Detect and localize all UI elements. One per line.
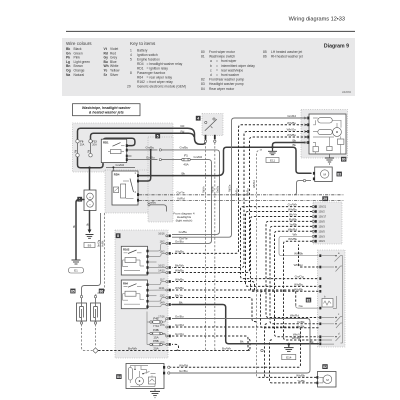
svg-text:Wh/Rd: Wh/Rd	[288, 227, 298, 231]
wire Gn/Rd fusebox row 327 to rear wiper	[170, 327, 300, 367]
svg-text:Front/rear washer pump: Front/rear washer pump	[209, 78, 244, 82]
wire dashdot Gy/Ye from RD4	[139, 194, 344, 196]
svg-text:& heated washer jets: & heated washer jets	[89, 110, 124, 114]
RH heated washer jet 86	[91, 303, 101, 321]
wire Wh/Rd GEM row6	[275, 231, 319, 336]
svg-text:H32084: H32084	[342, 90, 352, 94]
motor 80 pin arrows	[304, 117, 307, 144]
svg-text:Bn/Wh: Bn/Wh	[128, 346, 137, 350]
connector circles under ignition switch	[204, 140, 206, 142]
svg-text:Wash/wipe, headlight washer: Wash/wipe, headlight washer	[82, 106, 131, 110]
wire Gn/Bu stub to diagram 4	[148, 204, 150, 206]
svg-text:Wh/Bu: Wh/Bu	[175, 268, 184, 272]
fuse F42	[150, 321, 152, 323]
headlight washer pump 83 box	[315, 167, 333, 182]
relay R64 coil	[125, 291, 136, 296]
connector below RH jet	[94, 322, 96, 324]
item label 82	[322, 364, 327, 369]
motor 80 small rect right	[338, 139, 344, 144]
svg-text:Gn/Rd: Gn/Rd	[194, 155, 203, 159]
switch upper pin stub wires	[299, 245, 319, 268]
svg-text:20A: 20A	[80, 144, 85, 147]
svg-text:RD4: RD4	[137, 62, 144, 66]
wire Wh/Bu GEM row2	[246, 212, 319, 287]
svg-text:Bk: Bk	[240, 340, 244, 344]
svg-text:Gn/Bu: Gn/Bu	[148, 201, 157, 205]
wire Gn/Og fusebox row 336	[172, 336, 251, 351]
svg-text:E11: E11	[270, 159, 275, 163]
relay R64 contact	[128, 284, 137, 288]
item label 4	[196, 116, 201, 121]
wire Bk thick riser to pump 83	[256, 150, 262, 378]
svg-text:Bk: Bk	[310, 340, 314, 344]
wire Bk/Ye GEM row3	[251, 217, 319, 292]
svg-text:R64: R64	[123, 281, 128, 285]
wire drop ignition left dashed	[206, 143, 208, 351]
pump 83 lower wire	[303, 179, 305, 181]
relay RD1 terminals	[126, 144, 128, 147]
key column 1	[127, 49, 186, 89]
svg-text:Front wiper motor: Front wiper motor	[209, 50, 236, 54]
svg-text:= ignition relay: = ignition relay	[147, 67, 169, 71]
relay R64 terminals	[146, 283, 148, 286]
junction E14	[288, 343, 291, 346]
wire riser to RD4 terminal	[138, 150, 151, 181]
svg-text:20A: 20A	[92, 144, 97, 147]
svg-text:R162: R162	[137, 80, 145, 84]
ignition switch 4 internals	[205, 121, 207, 123]
svg-text:Bk: Bk	[182, 171, 186, 175]
svg-text:Generic electronic module (GEM: Generic electronic module (GEM)	[137, 85, 186, 89]
svg-text:11/7: 11/7	[160, 279, 165, 282]
svg-text:LH heated washer jet: LH heated washer jet	[271, 50, 302, 54]
fuse F13	[89, 140, 92, 143]
svg-text:83: 83	[337, 172, 341, 176]
svg-text:17/6: 17/6	[160, 324, 165, 327]
wire RH jet down to junction	[95, 324, 97, 347]
svg-text:100/3: 100/3	[319, 235, 326, 238]
wire labels at fusebox pins	[175, 230, 188, 336]
wire Gn/Bu F1 Gn/Rd row	[128, 159, 158, 161]
svg-text:(light switch): (light switch)	[176, 219, 193, 223]
switch 81 contact c	[321, 308, 342, 328]
svg-text:R162: R162	[123, 248, 130, 252]
svg-text:Wh/Bk: Wh/Bk	[288, 237, 297, 241]
motor 80 motor circle	[333, 128, 342, 137]
svg-text:82: 82	[323, 365, 327, 369]
svg-text:Gn/Bu: Gn/Bu	[180, 146, 189, 150]
engine fusebox 5 shaded area	[73, 123, 174, 172]
wire to LH jet	[82, 213, 101, 295]
wire Wh/Gn to motor pin 3	[172, 132, 307, 268]
svg-text:14/10: 14/10	[158, 270, 165, 273]
svg-text:Gn/Bu: Gn/Bu	[146, 155, 155, 159]
svg-text:Wh/Bu: Wh/Bu	[246, 188, 249, 196]
svg-text:16/2: 16/2	[160, 250, 165, 253]
motor 80 small rect mid	[327, 147, 332, 151]
wire Wh/Bu fusebox row 290 to switch Na riser	[172, 290, 296, 306]
svg-text:Ye/Bk: Ye/Bk	[289, 222, 297, 226]
svg-text:Wh/Bk: Wh/Bk	[292, 336, 301, 340]
svg-text:8: 8	[130, 71, 132, 75]
rear motor 84 park switch box	[149, 377, 156, 384]
svg-text:86: 86	[100, 289, 104, 293]
svg-text:Bn/Og: Bn/Og	[97, 239, 100, 247]
wire Wh/Bu fusebox row 281.5 down to switch	[172, 282, 257, 292]
motor 80 terminals	[307, 117, 309, 120]
svg-text:Rd: Rd	[181, 124, 185, 128]
wire Rd bus2 from fuse F13	[91, 133, 195, 139]
connector below LH jet	[80, 322, 82, 324]
fusebox pin labels	[158, 232, 165, 344]
svg-text:F36: F36	[153, 328, 159, 332]
svg-text:Gn/Wh: Gn/Wh	[288, 203, 298, 207]
svg-text:Gn/Bu: Gn/Bu	[175, 314, 184, 318]
wire Wh/Bk GEM row8	[284, 241, 319, 340]
LH heated washer jet 85	[77, 303, 87, 321]
ground under motor 80	[329, 154, 331, 158]
wire Wh/Bu to motor pin 2	[172, 125, 307, 254]
pump 82 terminals	[316, 376, 318, 379]
svg-text:Wh/Bu: Wh/Bu	[235, 188, 238, 196]
passenger fusebox 8 shaded area	[115, 230, 168, 358]
switch 81 internals	[321, 256, 342, 272]
connector circle on pump feed	[261, 349, 263, 351]
wire Ye/Bk to pump 82	[270, 340, 317, 383]
svg-text:Wh/Rd: Wh/Rd	[179, 363, 189, 367]
svg-text:5: 5	[157, 134, 159, 138]
passenger fusebox strip	[148, 137, 173, 222]
key panel background	[62, 38, 355, 96]
front wiper motor 80 box	[309, 114, 346, 154]
svg-text:Vt/Rd: Vt/Rd	[177, 196, 185, 200]
wire Wh GEM row7	[279, 236, 319, 255]
junction E11 on Bk wire	[271, 146, 273, 148]
key column 2	[201, 50, 255, 91]
svg-text:Bk/Wh: Bk/Wh	[175, 263, 184, 267]
connector on LH jet	[80, 295, 82, 297]
svg-text:Na: Na	[299, 304, 303, 308]
svg-text:RD1: RD1	[103, 141, 109, 145]
svg-text:Rd: Rd	[181, 129, 185, 133]
ground E14	[284, 347, 294, 349]
fusebox internal feed line	[147, 312, 150, 345]
motor 80 armature capsule 1	[318, 118, 333, 123]
wire colour table	[66, 47, 120, 77]
ignition switch 4 shaded area	[202, 114, 223, 136]
motor 80 small rect left	[313, 147, 318, 152]
GEM connector 29 pins	[312, 205, 327, 243]
svg-text:16/2: 16/2	[160, 240, 165, 243]
wire Bk/Ye fusebox row 300	[172, 298, 257, 324]
svg-text:29: 29	[127, 85, 131, 89]
fuse F9	[76, 140, 79, 143]
wash/wipe switch 81 shaded area	[318, 250, 346, 347]
svg-text:Gn/Rd: Gn/Rd	[287, 114, 296, 118]
svg-text:8: 8	[117, 234, 119, 238]
relay RD4 terminals	[137, 174, 139, 177]
svg-text:front wiper: front wiper	[221, 59, 237, 63]
junction RD1 to RD4 riser	[150, 149, 152, 151]
svg-text:Ye/Bk: Ye/Bk	[101, 240, 104, 247]
relay R64 pin wires	[149, 282, 166, 285]
svg-text:Bk: Bk	[292, 143, 296, 147]
svg-text:Diagram 9: Diagram 9	[324, 44, 349, 50]
svg-text:16/16: 16/16	[158, 232, 165, 235]
rear motor 84 resistor	[128, 368, 132, 381]
svg-text:Wh/Bu: Wh/Bu	[294, 282, 303, 286]
svg-text:29: 29	[323, 197, 327, 201]
svg-text:RD1: RD1	[137, 67, 144, 71]
junction diamond	[93, 348, 98, 353]
svg-text:86: 86	[263, 55, 267, 59]
svg-text:100/5: 100/5	[319, 220, 326, 223]
relay R162 terminals	[146, 250, 148, 253]
ground E11	[272, 147, 274, 151]
key column 3	[263, 50, 303, 59]
svg-text:5: 5	[130, 58, 132, 62]
relay R162 pin wires	[149, 243, 166, 251]
relay R64 box	[121, 280, 147, 309]
relay RD4 coil	[121, 184, 126, 198]
svg-text:Wiring diagrams 12•33: Wiring diagrams 12•33	[289, 17, 345, 23]
svg-text:Engine fusebox: Engine fusebox	[137, 58, 160, 62]
switch 81 intermittent block b	[322, 299, 333, 308]
svg-text:R64: R64	[137, 76, 143, 80]
svg-text:F56: F56	[153, 339, 159, 343]
svg-text:4: 4	[130, 53, 132, 57]
svg-text:100/4: 100/4	[319, 240, 326, 243]
svg-text:Wh/Bk: Wh/Bk	[296, 373, 305, 377]
wire Rd bus1 from fuse F9 to ignition switch	[78, 128, 206, 144]
svg-text:11/11: 11/11	[159, 287, 165, 290]
relay RD1 box	[101, 139, 126, 162]
fusebox connector column	[166, 235, 171, 346]
wire Rd/Bk GEM row4	[266, 221, 319, 317]
fuse F1 40A inline	[182, 158, 185, 161]
item label 86	[99, 289, 104, 294]
svg-text:80: 80	[201, 50, 205, 54]
svg-text:84: 84	[117, 375, 121, 379]
relay RD4 diode box	[114, 187, 119, 193]
engine fusebox 5 lower lobe	[105, 170, 150, 213]
svg-text:80: 80	[342, 158, 346, 162]
svg-text:Key to items: Key to items	[130, 41, 156, 46]
wire battery positive rail	[78, 157, 104, 168]
fuse F56	[150, 343, 152, 345]
svg-text:Bk/Ye: Bk/Ye	[289, 213, 297, 217]
item label 8	[116, 233, 121, 238]
svg-text:40A: 40A	[183, 162, 188, 166]
svg-text:RH heated washer jet: RH heated washer jet	[271, 55, 303, 59]
svg-text:Gn/Bu: Gn/Bu	[179, 230, 188, 234]
wire Wh/Bk to pump 82	[259, 324, 316, 378]
svg-text:81: 81	[307, 298, 311, 302]
diagram title box	[73, 104, 141, 116]
svg-text:b: b	[210, 64, 212, 68]
svg-text:E14: E14	[286, 356, 292, 360]
svg-text:13/2: 13/2	[160, 295, 165, 298]
wire dashdot Vt/Rd from RD4	[139, 199, 344, 201]
svg-text:Gn/Rd: Gn/Rd	[116, 163, 125, 167]
item label 5	[155, 134, 160, 139]
motor 80 armature capsule 2	[318, 129, 333, 134]
pump 83 terminals	[313, 172, 315, 175]
svg-text:Wh/Rd: Wh/Rd	[290, 314, 300, 318]
rear motor 84 terminals	[163, 366, 165, 369]
svg-text:= headlight washer relay: = headlight washer relay	[147, 62, 183, 66]
washer pump 82 box	[318, 372, 337, 388]
header rule	[66, 30, 355, 32]
switch 81 contact d	[321, 256, 342, 345]
svg-text:14/9: 14/9	[160, 302, 165, 305]
wire battery top lead	[89, 168, 91, 190]
ground E1	[72, 259, 81, 261]
junction battery rail	[88, 167, 90, 169]
wire battery negative to ground	[89, 211, 91, 230]
svg-text:Gn/Og: Gn/Og	[175, 332, 184, 336]
wire drop ignition right dashed	[215, 143, 217, 351]
relay RD1 contact	[113, 143, 121, 147]
wire RD1 pin stub	[128, 155, 132, 157]
relay R162 coil	[125, 258, 136, 263]
svg-text:Rear wiper motor: Rear wiper motor	[209, 87, 235, 91]
relay RD1 coil	[111, 150, 122, 154]
svg-text:1: 1	[130, 49, 132, 53]
item label 84	[116, 374, 121, 379]
wire Ye/Bk GEM row5	[270, 226, 319, 323]
ground under rear motor 84	[154, 389, 156, 392]
svg-text:Gy/Ye: Gy/Ye	[177, 191, 185, 195]
svg-text:Bk: Bk	[292, 139, 296, 143]
wire Gn/Rd to motor pin 1	[172, 118, 307, 237]
battery 1 box	[84, 190, 96, 211]
svg-text:20A: 20A	[153, 347, 158, 351]
svg-text:Rd/Bk: Rd/Bk	[212, 185, 215, 193]
svg-text:100/21: 100/21	[319, 206, 327, 209]
svg-text:Bk: Bk	[179, 300, 183, 304]
item label 83	[337, 172, 342, 177]
svg-text:Natural: Natural	[74, 73, 85, 77]
svg-text:84: 84	[201, 87, 205, 91]
wire Gn/Bu from RD1 to ignition feed drop	[128, 149, 158, 151]
svg-text:Gn/Rd: Gn/Rd	[175, 323, 184, 327]
svg-text:= rear wiper relay: = rear wiper relay	[147, 76, 173, 80]
svg-text:=: =	[216, 73, 218, 77]
svg-text:Gn/Bu: Gn/Bu	[146, 146, 155, 150]
svg-text:81: 81	[201, 55, 205, 59]
svg-text:Gn/Bu: Gn/Bu	[179, 369, 188, 373]
wire Ye/Bk second row stub	[261, 291, 319, 327]
svg-text:= front wiper relay: = front wiper relay	[147, 80, 174, 84]
svg-text:intermittent wiper delay: intermittent wiper delay	[221, 64, 255, 68]
svg-text:front washer: front washer	[221, 73, 240, 77]
svg-text:Wh/Bu: Wh/Bu	[288, 208, 297, 212]
svg-text:Wh/Bu: Wh/Bu	[287, 121, 296, 125]
svg-text:Ye/Bk: Ye/Bk	[297, 320, 305, 324]
wire thick Bk RD4 output to headlight pump	[139, 147, 311, 175]
svg-text:Bk/Ye: Bk/Ye	[175, 293, 183, 297]
svg-text:+: +	[89, 195, 91, 199]
svg-text:Silver: Silver	[110, 73, 119, 77]
svg-text:E6: E6	[88, 244, 92, 248]
relay RD4 contact	[130, 179, 134, 193]
svg-text:100/2: 100/2	[319, 211, 326, 214]
svg-text:17/16: 17/16	[158, 316, 165, 319]
svg-text:Ignition switch: Ignition switch	[137, 53, 158, 57]
connector on RH jet	[94, 295, 96, 297]
wire Gn/Wh GEM row1	[241, 207, 319, 279]
front wiper motor 80 shaded area	[301, 110, 348, 159]
svg-text:Wh/Gn: Wh/Gn	[287, 128, 297, 132]
relay RD4 box	[112, 171, 138, 205]
svg-text:Wh/Bu: Wh/Bu	[287, 133, 296, 137]
svg-text:d: d	[210, 73, 212, 77]
wire Wh/Bu to motor pin 4	[172, 137, 307, 273]
svg-text:Rd/Bk: Rd/Bk	[289, 217, 298, 221]
svg-text:a: a	[210, 59, 212, 63]
item label 81	[306, 298, 311, 303]
svg-text:Wh/Bu: Wh/Bu	[175, 286, 184, 290]
svg-text:Passenger fusebox: Passenger fusebox	[137, 71, 166, 75]
svg-text:=: =	[216, 59, 218, 63]
svg-text:100/3: 100/3	[319, 225, 326, 228]
ground arrow	[88, 230, 92, 234]
svg-text:4: 4	[197, 117, 199, 121]
svg-text:85: 85	[71, 289, 75, 293]
svg-text:Gn/Bu: Gn/Bu	[175, 239, 184, 243]
item label 29	[322, 196, 328, 201]
svg-text:Bn/Wh: Bn/Wh	[222, 346, 231, 350]
svg-text:16/12: 16/12	[158, 265, 165, 268]
svg-text:Wash/wipe switch: Wash/wipe switch	[209, 55, 235, 59]
svg-text:Na: Na	[66, 73, 70, 77]
rear motor 84 motor circle	[136, 377, 144, 385]
GEM connector 29 shaded area	[313, 202, 342, 244]
svg-text:F1: F1	[184, 154, 188, 158]
wire Rd bus3 battery feed to RD1	[103, 138, 135, 165]
svg-text:Wh/Rd: Wh/Rd	[253, 180, 256, 188]
wire Gn/Rd into RD4	[106, 166, 135, 168]
svg-text:83: 83	[201, 82, 205, 86]
wire Bk battery to ground E1	[76, 200, 84, 260]
svg-text:RD4: RD4	[114, 172, 120, 176]
svg-text:Wh/Bk: Wh/Bk	[294, 287, 303, 291]
relay R162 box	[121, 246, 147, 275]
wire Bn/Wh to fusebox	[98, 339, 250, 351]
svg-text:82: 82	[201, 78, 205, 82]
item label 1	[77, 197, 82, 202]
svg-text:Headlight washer pump: Headlight washer pump	[209, 82, 244, 86]
svg-text:85: 85	[263, 50, 267, 54]
rear motor connector circles	[168, 366, 170, 368]
svg-text:rear wash/wipe: rear wash/wipe	[221, 68, 243, 72]
svg-text:Wh/Bu: Wh/Bu	[175, 277, 184, 281]
svg-text:−: −	[89, 203, 91, 207]
svg-text:Gn/Og: Gn/Og	[295, 275, 304, 279]
svg-text:Rd/Ye: Rd/Ye	[202, 186, 205, 193]
wire Bk thick fusebox row 309 to ground net	[172, 305, 319, 344]
svg-text:E1: E1	[74, 269, 78, 273]
rear wiper motor 84 box	[126, 364, 164, 389]
svg-text:Wh: Wh	[293, 232, 298, 236]
wire LH jet down to junction	[82, 324, 93, 350]
svg-text:Wire colours: Wire colours	[66, 41, 92, 46]
svg-text:Ye/Bk: Ye/Bk	[297, 379, 305, 383]
relay R162 contact	[128, 250, 137, 254]
svg-text:Gn/Bu: Gn/Bu	[216, 185, 219, 193]
wire to RH jet dashed	[96, 213, 105, 296]
